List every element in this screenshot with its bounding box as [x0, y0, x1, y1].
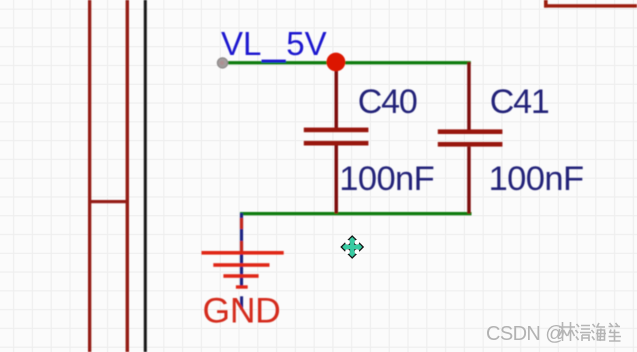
- glyph lin: [559, 322, 575, 341]
- glyph qing: [576, 324, 592, 341]
- svg-text:C41: C41: [490, 83, 549, 121]
- glyph sheng: [609, 323, 622, 341]
- svg-text:GND: GND: [203, 291, 281, 331]
- glyph hai: [592, 323, 607, 341]
- pin (unconnected wire end): [217, 58, 227, 68]
- junction node (red dot): [327, 53, 346, 72]
- ground GND (power port, selected): [202, 213, 284, 310]
- capacitor C40: [304, 62, 369, 214]
- svg-text:CSDN @: CSDN @: [486, 323, 565, 345]
- net label VL_5V: [221, 25, 327, 63]
- component outline corner (top right): [544, 0, 637, 8]
- svg-text:100nF: 100nF: [339, 160, 434, 198]
- svg-text:100nF: 100nF: [489, 160, 584, 198]
- svg-text:VL: VL: [221, 25, 261, 62]
- svg-text:C40: C40: [358, 83, 417, 121]
- wire VL_5V (top horizontal): [226, 61, 471, 64]
- wire GND (bottom horizontal): [240, 212, 472, 215]
- component edge: left maroon vertical line 2: [126, 0, 129, 352]
- sheet partition: black vertical line: [144, 0, 147, 352]
- move cursor icon: [340, 235, 364, 259]
- component edge: left maroon vertical line 1: [88, 0, 91, 352]
- component edge: horizontal connector between left lines: [88, 200, 129, 203]
- watermark CSDN @linqinghaisheng: [486, 322, 621, 345]
- capacitor C41: [438, 62, 503, 214]
- svg-text:5V: 5V: [286, 25, 326, 62]
